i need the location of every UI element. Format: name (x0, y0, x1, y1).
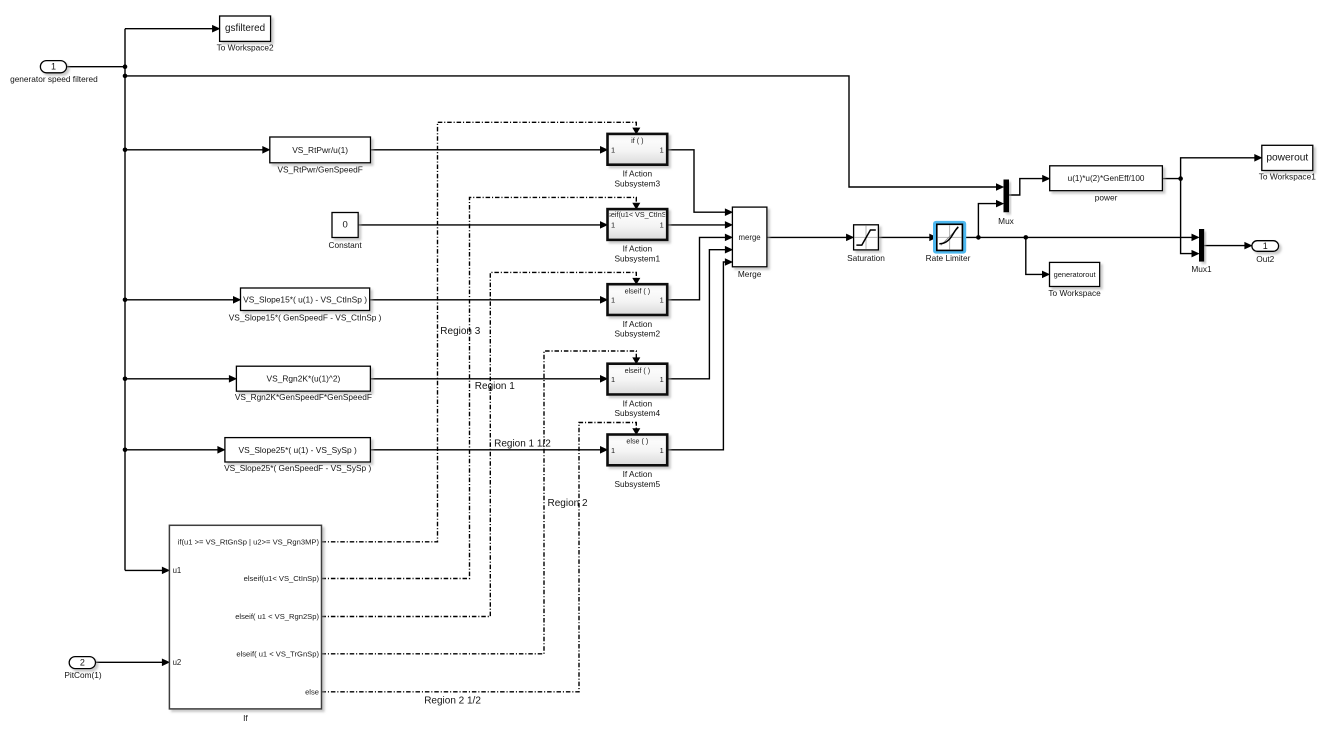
wire VS_Rgn2K to Subsystem4 (370, 378, 601, 380)
arrowhead Subsystem1 input (600, 222, 607, 229)
svg-text:elseif ( ): elseif ( ) (625, 366, 651, 375)
wire branch to Mux in2 (978, 204, 997, 238)
wire branch to generatorout (1026, 237, 1044, 274)
wire If out4 dash-dot to Subsystem4 (322, 351, 637, 654)
svg-text:Mux1: Mux1 (1191, 264, 1212, 274)
svg-text:1: 1 (660, 145, 664, 154)
svg-text:generatorout: generatorout (1054, 270, 1096, 279)
arrowhead Merge in4 (725, 246, 732, 253)
wire junction to powerout (1181, 158, 1256, 179)
arrowhead Merge in5 (725, 259, 732, 266)
svg-text:PitCom(1): PitCom(1) (64, 670, 102, 680)
svg-text:If Action: If Action (623, 244, 653, 254)
to-workspace block gsfiltered / To Workspace2 (217, 16, 274, 53)
svg-text:1: 1 (611, 145, 615, 154)
svg-text:Saturation: Saturation (847, 253, 885, 263)
saturation block Saturation (847, 225, 885, 263)
svg-text:VS_Slope15*( GenSpeedF - VS_Ct: VS_Slope15*( GenSpeedF - VS_CtInSp ) (229, 312, 382, 322)
wire trunk to VS_Slope15 (125, 299, 234, 301)
svg-text:elseif(u1< VS_CtInSp): elseif(u1< VS_CtInSp) (602, 210, 673, 219)
wire If out1 dash-dot to Subsystem3 (322, 122, 637, 542)
svg-text:1: 1 (611, 221, 615, 230)
wire Mux1 to Out2 (1204, 245, 1246, 247)
wire inport2 to If u2 (96, 661, 164, 663)
wire Subsystem4 to Merge in4 (667, 250, 726, 379)
junction after Rate Limiter (976, 235, 981, 240)
wire VS_Slope15 to Subsystem2 (370, 299, 602, 301)
svg-text:VS_Slope25*( GenSpeedF - VS_Sy: VS_Slope25*( GenSpeedF - VS_SySp ) (224, 463, 371, 473)
svg-text:2: 2 (80, 658, 85, 668)
outport Out2 (1252, 241, 1279, 264)
svg-text:merge: merge (739, 233, 761, 242)
arrowhead powerout input (1255, 155, 1262, 162)
svg-text:elseif(u1< VS_CtInSp): elseif(u1< VS_CtInSp) (244, 574, 320, 583)
svg-text:Subsystem1: Subsystem1 (615, 254, 661, 264)
svg-text:gsfiltered: gsfiltered (225, 23, 265, 34)
merge block Merge (732, 207, 767, 279)
svg-text:Subsystem2: Subsystem2 (615, 329, 661, 339)
wire trunk vertical (124, 29, 126, 571)
svg-text:VS_Rgn2K*GenSpeedF*GenSpeedF: VS_Rgn2K*GenSpeedF*GenSpeedF (235, 392, 372, 402)
arrowhead VS_Rgn2K input (229, 376, 236, 383)
wire trunk to If u1 (125, 569, 163, 571)
svg-text:To Workspace2: To Workspace2 (217, 43, 274, 53)
svg-text:To Workspace: To Workspace (1048, 288, 1101, 298)
svg-text:u1: u1 (173, 566, 182, 575)
svg-text:powerout: powerout (1266, 152, 1308, 163)
wire trunk branch to Mux top (125, 76, 998, 187)
svg-text:If Action: If Action (623, 398, 653, 408)
wire Subsystem1 to Merge in2 (667, 224, 726, 226)
arrowhead Saturation input (846, 234, 853, 241)
arrowhead Subsystem2 control (633, 278, 640, 284)
svg-text:1: 1 (611, 296, 615, 305)
wire If out5 dash-dot to Subsystem5 (322, 423, 637, 692)
arrowhead Subsystem5 control (633, 429, 640, 435)
svg-text:if(u1 >= VS_RtGnSp | u2>= VS_R: if(u1 >= VS_RtGnSp | u2>= VS_Rgn3MP) (178, 537, 320, 546)
svg-text:Region 2: Region 2 (548, 498, 588, 509)
fcn block VS_Slope25*( u(1) - VS_SySp ) (224, 438, 371, 473)
rate-limiter block Rate Limiter (selected) (926, 221, 971, 263)
arrowhead Merge in3 (725, 234, 732, 241)
arrowhead Subsystem4 input (600, 376, 607, 383)
svg-text:if ( ): if ( ) (631, 136, 643, 145)
svg-text:1: 1 (611, 446, 615, 455)
if-action subsystem U5 If Action Subsystem5 (608, 435, 668, 489)
svg-text:else: else (305, 687, 319, 696)
junction trunk top branch (123, 74, 128, 79)
arrowhead Subsystem2 input (600, 297, 607, 304)
wire If out2 dash-dot to Subsystem1 (322, 197, 637, 578)
if-action subsystem U4 If Action Subsystem4 (608, 364, 668, 418)
svg-text:Subsystem3: Subsystem3 (615, 178, 661, 188)
mux block Mux (998, 180, 1015, 227)
svg-text:VS_Slope15*( u(1) - VS_CtInSp: VS_Slope15*( u(1) - VS_CtInSp ) (243, 294, 367, 304)
svg-text:1: 1 (660, 446, 664, 455)
arrowhead Out2 input (1245, 242, 1252, 249)
svg-text:Out2: Out2 (1256, 254, 1274, 264)
fcn block VS_Rgn2K*(u(1)^2) (235, 366, 372, 402)
svg-text:VS_Rgn2K*(u(1)^2): VS_Rgn2K*(u(1)^2) (267, 374, 341, 384)
fcn block power u(1)*u(2)*GenEff/100 (1050, 166, 1163, 203)
arrowhead generatorout input (1042, 271, 1049, 278)
arrowhead Subsystem5 input (600, 447, 607, 454)
arrowhead gsfiltered input (212, 25, 219, 32)
wire VS_Slope25 to Subsystem5 (370, 449, 601, 451)
svg-text:1: 1 (51, 62, 56, 72)
svg-text:1: 1 (611, 375, 615, 384)
svg-text:VS_RtPwr/u(1): VS_RtPwr/u(1) (292, 145, 348, 155)
svg-text:Rate Limiter: Rate Limiter (926, 253, 971, 263)
svg-text:1: 1 (660, 221, 664, 230)
svg-text:Region 2 1/2: Region 2 1/2 (424, 696, 481, 707)
svg-text:elseif( u1 < VS_TrGnSp): elseif( u1 < VS_TrGnSp) (236, 649, 319, 658)
junction inport1/gsfiltered (123, 64, 128, 69)
wire VS_RtPwr to Subsystem3 (371, 149, 602, 151)
svg-text:If Action: If Action (623, 469, 653, 479)
wire power to junction (1162, 178, 1180, 180)
svg-text:Region 1: Region 1 (475, 381, 515, 392)
wire trunk to gsfiltered (125, 28, 214, 30)
svg-text:If Action: If Action (623, 319, 653, 329)
arrowhead power input (1043, 175, 1050, 182)
fcn block VS_RtPwr/u(1) (270, 137, 371, 175)
arrowhead Mux in1 (996, 184, 1003, 191)
svg-text:1: 1 (660, 375, 664, 384)
junction trunk VS_Rgn2K (123, 377, 128, 382)
wire Merge to Saturation (767, 236, 848, 238)
arrowhead Merge in2 (725, 222, 732, 229)
junction trunk VS_Slope15 (123, 298, 128, 303)
wire If out3 dash-dot to Subsystem2 (322, 272, 637, 616)
inport 1 generator speed filtered (10, 61, 98, 84)
svg-text:1: 1 (1263, 241, 1268, 251)
wire Subsystem3 to Merge in1 (667, 150, 726, 212)
wire Mux to power (1009, 179, 1044, 195)
wire Subsystem2 to Merge in3 (667, 237, 726, 299)
mux block Mux1 (1191, 229, 1212, 274)
svg-text:Merge: Merge (738, 269, 762, 279)
to-workspace block powerout / To Workspace1 (1259, 145, 1316, 181)
arrowhead Merge in1 (725, 209, 732, 216)
arrowhead Subsystem3 control (633, 128, 640, 134)
svg-text:Subsystem4: Subsystem4 (615, 408, 661, 418)
if-action subsystem U1 If Action Subsystem1 (602, 209, 673, 263)
svg-text:else ( ): else ( ) (626, 437, 648, 446)
arrowhead If u2 input (162, 659, 169, 666)
arrowhead Mux in2 (996, 200, 1003, 207)
junction trunk VS_Slope25 (123, 448, 128, 453)
arrowhead Subsystem1 control (633, 203, 640, 209)
arrowhead If u1 input (162, 567, 169, 574)
wire trunk to VS_RtPwr (125, 149, 264, 151)
svg-text:u(1)*u(2)*GenEff/100: u(1)*u(2)*GenEff/100 (1068, 174, 1145, 183)
wire Subsystem5 to Merge in5 (667, 262, 726, 450)
svg-text:elseif( u1 < VS_Rgn2Sp): elseif( u1 < VS_Rgn2Sp) (235, 612, 319, 621)
svg-text:generator speed filtered: generator speed filtered (10, 74, 98, 84)
if block If (169, 525, 321, 723)
inport 2 PitCom(1) (64, 657, 102, 680)
wire Rate Limiter to Mux1 in1 (962, 236, 1193, 238)
arrowhead VS_Slope15 input (233, 297, 240, 304)
junction generatorout branch (1024, 235, 1029, 240)
svg-text:Region 3: Region 3 (440, 326, 480, 337)
svg-text:If: If (243, 713, 248, 723)
wire Saturation to Rate Limiter (878, 236, 930, 238)
arrowhead VS_Slope25 input (218, 447, 225, 454)
if-action subsystem U2 If Action Subsystem2 (608, 284, 668, 338)
wire inport1 to trunk (67, 66, 125, 68)
to-workspace block generatorout / To Workspace (1048, 262, 1101, 298)
svg-text:0: 0 (342, 220, 347, 231)
svg-text:Constant: Constant (328, 240, 362, 250)
junction power output (1178, 176, 1183, 181)
arrowhead Mux1 in2 (1192, 250, 1199, 257)
junction trunk VS_RtPwr (123, 148, 128, 153)
svg-text:Region 1 1/2: Region 1 1/2 (494, 439, 551, 450)
arrowhead Mux1 in1 (1192, 234, 1199, 241)
svg-text:Mux: Mux (998, 216, 1015, 226)
fcn block VS_Slope15*( u(1) - VS_CtInSp ) (229, 288, 382, 322)
arrowhead Subsystem3 input (600, 147, 607, 154)
svg-text:To Workspace1: To Workspace1 (1259, 172, 1316, 182)
arrowhead Rate Limiter input (930, 234, 937, 241)
svg-text:Subsystem5: Subsystem5 (615, 479, 661, 489)
svg-text:u2: u2 (173, 658, 182, 667)
svg-text:power: power (1095, 193, 1118, 203)
wire junction to Mux1 in2 (1181, 179, 1193, 254)
wire trunk to VS_Slope25 (125, 449, 219, 451)
arrowhead VS_RtPwr input (263, 147, 270, 154)
constant block 0 (328, 213, 362, 251)
wire trunk to VS_Rgn2K (125, 378, 230, 380)
svg-text:VS_Slope25*( u(1) - VS_SySp ): VS_Slope25*( u(1) - VS_SySp ) (239, 445, 357, 455)
wire Constant to Subsystem1 (358, 224, 601, 226)
svg-text:VS_RtPwr/GenSpeedF: VS_RtPwr/GenSpeedF (277, 165, 362, 175)
if-action subsystem U3 If Action Subsystem3 (608, 134, 668, 188)
svg-text:If Action: If Action (623, 169, 653, 179)
arrowhead Subsystem4 control (633, 358, 640, 364)
svg-text:1: 1 (660, 296, 664, 305)
svg-text:elseif ( ): elseif ( ) (625, 286, 651, 295)
